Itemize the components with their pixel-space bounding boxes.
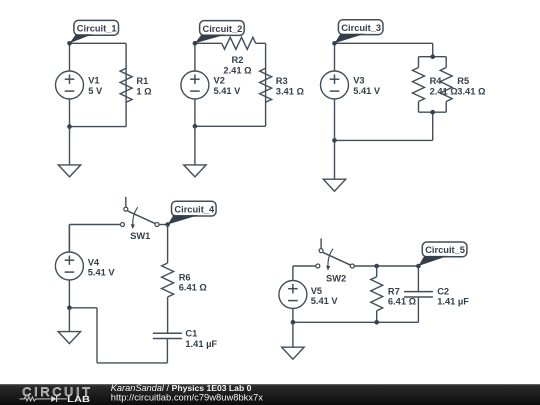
label V2 value 5.41 V xyxy=(214,75,242,96)
wire circuit2 V2 top lead xyxy=(194,43,196,71)
svg-text:C2: C2 xyxy=(437,286,449,296)
node junction circuit1 bottom xyxy=(67,124,72,129)
node junction circuit4 bottom xyxy=(67,306,72,311)
svg-text:R7: R7 xyxy=(388,286,400,296)
node junction circuit3 par bottom xyxy=(430,110,435,115)
label R6 value 6.41 Ohm xyxy=(179,273,208,293)
wire circuit2 right xyxy=(265,43,267,126)
wire circuit5 V5 top lead xyxy=(292,266,294,281)
wire circuit4 V4 top lead xyxy=(68,225,70,253)
svg-text:R4: R4 xyxy=(430,76,443,86)
svg-text:V2: V2 xyxy=(214,75,225,85)
wire circuit1 right xyxy=(125,43,127,126)
wire circuit3 R4 bottom lead xyxy=(418,102,420,113)
wire circuit5 cap bottom lead xyxy=(417,297,419,322)
resistor R1 xyxy=(120,68,132,102)
svg-text:C1: C1 xyxy=(185,329,197,339)
label V4 value 5.41 V xyxy=(88,257,116,277)
label V5 value 5.41 V xyxy=(311,286,339,306)
voltage source V4 xyxy=(55,252,83,280)
svg-text:R3: R3 xyxy=(276,76,288,86)
footer title KaranSandal / Physics 1E03 Lab 0 xyxy=(111,383,252,393)
capacitor C1 xyxy=(153,333,182,338)
wire circuit1 V1 bottom lead xyxy=(69,99,71,127)
node junction circuit2 top xyxy=(193,41,198,46)
wire circuit5 sw to nodes xyxy=(354,265,418,267)
wire circuit4 top corner xyxy=(68,225,70,253)
ground circuit2 xyxy=(184,165,206,177)
footer bar xyxy=(0,384,540,405)
wire circuit1 V1 top lead xyxy=(69,43,71,71)
svg-text:1 Ω: 1 Ω xyxy=(136,87,152,97)
callout label Circuit_2 xyxy=(195,21,244,44)
voltage source V3 xyxy=(321,71,349,99)
wire circuit3 top xyxy=(335,42,433,44)
svg-text:1.41 µF: 1.41 µF xyxy=(185,339,217,349)
node junction circuit1 top xyxy=(67,41,72,46)
svg-text:Circuit_2: Circuit_2 xyxy=(203,24,243,34)
svg-text:2.41 Ω: 2.41 Ω xyxy=(223,66,252,76)
ground circuit4 xyxy=(58,332,80,344)
svg-text:LAB: LAB xyxy=(67,394,90,404)
svg-text:Circuit_4: Circuit_4 xyxy=(174,204,215,214)
svg-text:SW2: SW2 xyxy=(326,273,346,283)
svg-text:2.41 Ω: 2.41 Ω xyxy=(430,87,459,97)
voltage source V1 xyxy=(56,71,84,99)
wire circuit4 V4 bottom lead xyxy=(68,280,70,308)
wire circuit4 node to riser xyxy=(69,307,97,309)
ground circuit5 xyxy=(282,347,304,359)
svg-text:6.41 Ω: 6.41 Ω xyxy=(179,283,208,293)
label R5 value 3.41 Ohm xyxy=(457,76,486,97)
svg-text:3.41 Ω: 3.41 Ω xyxy=(457,87,486,97)
node junction circuit5 cap top xyxy=(416,264,421,269)
callout label Circuit_5 xyxy=(418,242,467,266)
node junction circuit5 R7 bottom xyxy=(374,320,379,325)
svg-text:R5: R5 xyxy=(457,76,469,86)
wire circuit3 R5 top lead xyxy=(445,57,447,68)
label V1 value 5 V xyxy=(88,75,103,96)
CircuitLab logo xyxy=(20,385,93,404)
label R1 value 1 Ohm xyxy=(136,76,152,97)
node junction circuit5 R7 top xyxy=(374,264,379,269)
wire circuit1 bottom xyxy=(70,126,127,128)
ground circuit3 xyxy=(323,179,345,191)
wire circuit4 ground lead xyxy=(68,308,70,332)
voltage source V5 xyxy=(279,281,307,309)
wire circuit2 bottom xyxy=(195,125,266,127)
label R3 value 3.41 Ohm xyxy=(276,76,305,97)
wire circuit5 R7 bottom lead xyxy=(376,311,378,323)
wire circuit4 cap bottom lead xyxy=(166,339,168,363)
resistor R5 xyxy=(440,68,452,102)
wire circuit3 par top rail xyxy=(419,56,447,58)
wire circuit4 top left xyxy=(69,224,120,226)
capacitor C2 xyxy=(404,292,433,297)
svg-text:5.41 V: 5.41 V xyxy=(311,296,339,306)
wire circuit4 bottom riser xyxy=(96,308,98,363)
ground circuit1 xyxy=(58,165,80,177)
svg-text:5 V: 5 V xyxy=(88,86,103,96)
label R7 value 6.41 Ohm xyxy=(388,286,417,306)
wire circuit5 top left xyxy=(293,265,316,267)
wire circuit2 ground lead xyxy=(194,126,196,165)
switch SW2 xyxy=(316,238,355,283)
wire circuit4 bottom xyxy=(97,362,167,364)
svg-text:Circuit_1: Circuit_1 xyxy=(77,24,117,34)
wire circuit3 V3 bottom lead xyxy=(334,99,336,141)
wire circuit5 bottom xyxy=(293,321,419,323)
svg-text:5.41 V: 5.41 V xyxy=(214,86,242,96)
svg-text:R6: R6 xyxy=(179,273,191,283)
svg-text:5.41 V: 5.41 V xyxy=(88,267,116,277)
callout label Circuit_3 xyxy=(335,20,384,44)
node junction circuit4 top xyxy=(165,222,170,227)
footer url xyxy=(111,392,263,403)
wire circuit5 V5 bottom lead xyxy=(292,308,294,322)
resistor R7 xyxy=(371,277,383,311)
callout label Circuit_1 xyxy=(70,20,119,43)
wire circuit3 ground lead xyxy=(334,140,336,179)
resistor R3 xyxy=(260,68,272,102)
svg-text:V4: V4 xyxy=(88,257,100,267)
wire circuit4 sw to node xyxy=(159,224,168,226)
wire circuit5 cap top lead xyxy=(417,266,419,292)
wire circuit1 ground lead xyxy=(69,127,71,165)
wire circuit3 bottom xyxy=(335,139,433,141)
resistor R4 xyxy=(413,68,425,102)
label R4 value 2.41 Ohm xyxy=(430,76,459,97)
svg-text:R2: R2 xyxy=(232,55,244,65)
wire circuit3 R5 bottom lead xyxy=(445,102,447,113)
wire circuit3 top drop xyxy=(432,43,434,56)
wire circuit2 V2 bottom lead xyxy=(194,99,196,127)
svg-text:5.41 V: 5.41 V xyxy=(353,86,381,96)
switch SW1 xyxy=(121,197,160,241)
svg-text:V1: V1 xyxy=(88,75,99,85)
voltage source V2 xyxy=(181,71,209,99)
resistor R2 xyxy=(222,37,256,49)
label C2 value 1.41 uF xyxy=(437,286,469,306)
node junction circuit5 bottom xyxy=(291,320,296,325)
svg-text:6.41 Ω: 6.41 Ω xyxy=(388,296,417,306)
label C1 value 1.41 uF xyxy=(185,329,217,349)
node junction circuit2 bottom xyxy=(193,124,198,129)
wire circuit1 top xyxy=(70,42,127,44)
wire circuit2 top left lead xyxy=(195,42,222,44)
wire circuit2 top right lead xyxy=(256,42,266,44)
svg-text:http://circuitlab.com/c79w8uw8: http://circuitlab.com/c79w8uw8bkx7x xyxy=(111,392,263,403)
wire circuit3 par bottom rail xyxy=(419,111,447,113)
label R2 value 2.41 Ohm xyxy=(223,55,252,76)
wire circuit5 ground lead xyxy=(292,322,294,347)
wire circuit4 R6 to capacitor xyxy=(167,297,169,333)
svg-text:Circuit_3: Circuit_3 xyxy=(341,23,381,33)
svg-text:3.41 Ω: 3.41 Ω xyxy=(276,87,305,97)
wire circuit5 R7 top lead xyxy=(376,266,378,277)
callout label Circuit_4 xyxy=(168,201,217,224)
svg-text:R1: R1 xyxy=(136,76,148,86)
wire circuit4 right upper xyxy=(167,225,169,264)
svg-text:SW1: SW1 xyxy=(130,231,150,241)
resistor R6 xyxy=(162,263,174,297)
svg-text:V5: V5 xyxy=(311,286,322,296)
node junction circuit3 par top xyxy=(430,54,435,59)
wire circuit3 V3 top lead xyxy=(334,43,336,71)
svg-text:Circuit_5: Circuit_5 xyxy=(425,245,465,255)
label V3 value 5.41 V xyxy=(353,75,381,96)
wire circuit3 R4 top lead xyxy=(418,57,420,68)
node junction circuit3 bottom xyxy=(332,138,337,143)
svg-text:V3: V3 xyxy=(353,75,364,85)
svg-text:1.41 µF: 1.41 µF xyxy=(437,296,469,306)
node junction circuit3 top xyxy=(332,41,337,46)
wire circuit3 bottom drop xyxy=(432,112,434,140)
